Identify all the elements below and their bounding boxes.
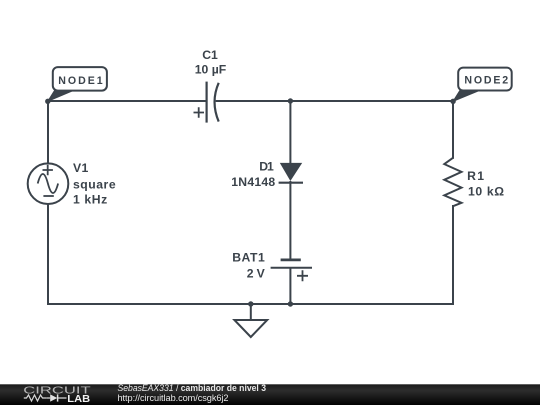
svg-text:NODE1: NODE1: [58, 75, 103, 87]
wire top left: node1 to capacitor: [48, 100, 206, 102]
svg-text:SebasEAX331 / cambiador de niv: SebasEAX331 / cambiador de nivel 3: [118, 383, 267, 393]
wire middle upper: junction to diode: [289, 101, 291, 163]
logo diode: [50, 394, 57, 401]
svg-text:R1: R1: [467, 169, 484, 183]
battery BAT1 short plate: [281, 258, 301, 261]
V1 plus sign: [43, 165, 53, 175]
svg-text:http://circuitlab.com/csgk6j2: http://circuitlab.com/csgk6j2: [118, 393, 229, 403]
ground stem: [250, 304, 252, 320]
battery BAT1 plus sign: [297, 270, 308, 281]
node NODE2 callout pointer: [453, 90, 481, 102]
svg-text:D1: D1: [259, 159, 274, 173]
wire right vertical upper: [452, 101, 454, 158]
ground junction dot: [248, 301, 253, 306]
node junction top middle: [288, 98, 293, 103]
logo resistor zigzag: [24, 395, 47, 401]
V1 minus sign: [43, 195, 53, 197]
svg-text:1N4148: 1N4148: [231, 175, 275, 189]
svg-text:10 µF: 10 µF: [195, 63, 227, 77]
V1 sine wave: [38, 174, 58, 193]
node NODE1 box: [53, 67, 107, 91]
ground symbol triangle: [234, 320, 267, 337]
wire middle mid: diode to battery: [289, 182, 291, 260]
wire right vertical lower: [452, 206, 454, 304]
resistor R1 zigzag: [444, 158, 461, 206]
svg-text:BAT1: BAT1: [232, 250, 265, 264]
wire left vertical upper: [47, 101, 49, 164]
svg-text:10 kΩ: 10 kΩ: [468, 185, 504, 199]
node NODE1 callout pointer: [48, 90, 75, 102]
svg-text:C1: C1: [202, 48, 218, 62]
svg-text:2 V: 2 V: [247, 267, 266, 281]
voltage source V1 circle: [28, 163, 69, 204]
diode D1 triangle: [280, 163, 302, 181]
footer bar: [0, 384, 540, 405]
wire bottom: [48, 303, 453, 305]
node NODE2 dot: [450, 99, 455, 104]
node NODE2 box: [458, 68, 512, 91]
capacitor C1 left plate: [206, 82, 208, 123]
node NODE1 dot: [45, 99, 50, 104]
node junction bottom middle: [288, 301, 293, 306]
battery BAT1 long plate: [271, 267, 312, 269]
svg-text:NODE2: NODE2: [464, 75, 508, 87]
diode D1 cathode bar: [279, 182, 303, 184]
svg-text:square: square: [73, 177, 116, 191]
capacitor C1 plus sign: [194, 107, 205, 117]
capacitor C1 curved plate: [215, 83, 219, 122]
wire top right: capacitor to node2: [217, 100, 453, 102]
svg-text:1 kHz: 1 kHz: [73, 193, 107, 207]
wire left vertical lower: [47, 204, 49, 304]
svg-text:V1: V1: [73, 161, 89, 175]
svg-text:LAB: LAB: [67, 394, 90, 405]
wire middle lower: battery to bottom: [289, 268, 291, 304]
